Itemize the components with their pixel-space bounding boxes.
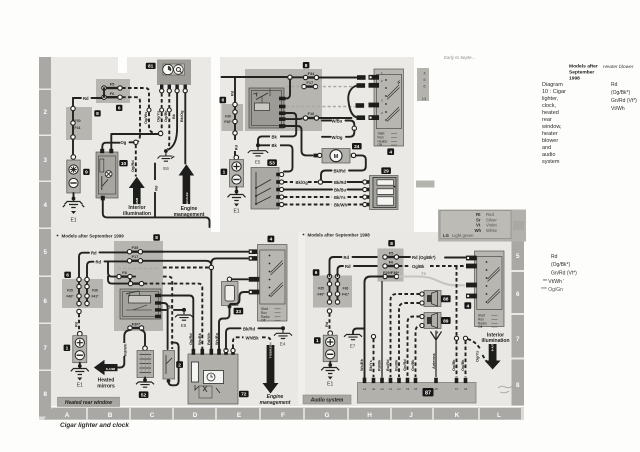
connector pin: [335, 300, 339, 304]
speaker unit 89: [420, 313, 441, 329]
svg-text:a2: a2: [372, 387, 376, 391]
wire fusebox right leg: [337, 276, 339, 304]
battery: [323, 331, 337, 362]
svg-text:6: 6: [66, 273, 69, 279]
svg-text:Audio system: Audio system: [310, 398, 344, 404]
connector pin: [77, 277, 81, 281]
svg-text:** Vt/Wh ': ** Vt/Wh ': [543, 279, 564, 285]
wire loop ignition pin2 to pin 4: [348, 86, 357, 118]
wire Rd fusebox to fuse F6: [338, 264, 384, 276]
ground E1: [228, 195, 246, 215]
svg-text:24: 24: [354, 144, 360, 150]
junction dot: [72, 197, 76, 201]
fuse/relay box 8: [245, 69, 322, 131]
svg-text:Og/Bk: Og/Bk: [412, 264, 425, 269]
radio pin b2: [397, 378, 401, 383]
svg-text:9-A/7: 9-A/7: [491, 343, 495, 351]
svg-text:September: September: [569, 70, 594, 76]
plug connector: [249, 256, 258, 261]
svg-text:b1: b1: [389, 387, 393, 391]
svg-text:89: 89: [443, 318, 449, 324]
wire F16 to ignition pin 4: [319, 117, 352, 119]
svg-text:5: 5: [43, 249, 47, 256]
svg-text:E6: E6: [163, 166, 169, 171]
blower resistor pack: [370, 176, 399, 210]
radio pin b7: [455, 378, 459, 383]
wire relay pin 5 down to blower motor: [285, 126, 313, 155]
svg-text:LG: LG: [443, 233, 450, 238]
label 81: [146, 63, 156, 70]
svg-text:Red: Red: [486, 212, 494, 217]
relay pin b: [155, 301, 161, 304]
svg-text:Rd: Rd: [83, 96, 89, 101]
wire Rd main feed: [222, 76, 288, 78]
svg-text:M: M: [334, 154, 339, 160]
svg-text:Og/Bk: Og/Bk: [460, 359, 465, 371]
connector on b7 wire: [454, 336, 458, 340]
svg-text:Og/Rd: Og/Rd: [130, 160, 135, 172]
plug connector: [356, 103, 365, 108]
svg-text:Vt/Wh: Vt/Wh: [611, 106, 625, 112]
label 52: [139, 391, 149, 398]
colour code legend box: [438, 210, 526, 242]
svg-text:Early to Septe...: Early to Septe...: [444, 55, 475, 60]
svg-text:Models after September 1999: Models after September 1999: [62, 234, 125, 239]
svg-text:management: management: [260, 400, 291, 406]
svg-text:4: 4: [43, 202, 47, 209]
svg-text:81: 81: [148, 64, 154, 70]
fusebox F30/F41: [66, 107, 92, 140]
wire Bk/Ys switch pin4 to resistor pin 3: [284, 195, 363, 200]
lamp unit pin 1: [100, 149, 104, 153]
battery: [73, 331, 87, 362]
wire ignition pin 4 to relay 33: [230, 292, 249, 306]
wire fusebox left leg: [329, 276, 331, 304]
connector pin: [71, 135, 75, 139]
svg-text:Rd: Rd: [233, 144, 238, 150]
wire Rd from E6 region to bottom run: [152, 164, 158, 218]
wire Rd fusebox to battery: [73, 314, 79, 332]
svg-text:rear: rear: [542, 117, 552, 123]
svg-text:8: 8: [43, 391, 47, 398]
junction to ground E7: [353, 329, 365, 334]
svg-text:F40*: F40*: [318, 293, 326, 297]
svg-text:Gn/Rd (Vt*): Gn/Rd (Vt*): [551, 271, 577, 277]
wire Bk/Bu switch pin3 to resistor pin 2: [284, 187, 363, 193]
ignition pin 2: [249, 257, 252, 260]
wire W/Og from connector: [332, 131, 355, 140]
fusebox 6: [313, 276, 352, 308]
connector on a2 wire: [371, 334, 375, 338]
junction dot E5: [256, 143, 260, 147]
fuse F9: [128, 281, 143, 285]
label 87: [423, 388, 434, 396]
relay pin 2: [279, 105, 286, 109]
heater blower switch: [251, 168, 279, 210]
junction dot E8: [182, 308, 186, 312]
svg-text:J: J: [409, 412, 413, 419]
svg-text:White: White: [486, 228, 498, 233]
connector pin: [77, 284, 81, 288]
svg-text:Ws/Bk: Ws/Bk: [197, 332, 202, 345]
svg-text:clock,: clock,: [542, 103, 557, 109]
svg-text:Ws/Bk: Ws/Bk: [359, 358, 364, 371]
svg-text:Bk/Og: Bk/Og: [296, 180, 309, 185]
svg-text:4: 4: [466, 303, 469, 309]
svg-text:Off: Off: [378, 143, 382, 147]
label 4: [387, 148, 394, 155]
svg-text:illumination: illumination: [123, 211, 151, 217]
blower motor: [314, 149, 356, 164]
bottom border letter cells: [44, 408, 521, 420]
svg-text:E5: E5: [255, 160, 261, 165]
connector pin: [335, 274, 339, 278]
ignition pin 4: [369, 115, 380, 120]
junction dot: [328, 363, 332, 367]
fuse F6: [383, 259, 399, 268]
svg-text:management: management: [174, 212, 205, 218]
svg-text:Gn/Bk: Gn/Bk: [410, 359, 415, 371]
inline connector: [352, 126, 356, 130]
svg-text:E7: E7: [350, 344, 356, 349]
faint alternative row in box: [118, 268, 160, 270]
svg-text:Og: Og: [121, 140, 127, 145]
label 6: [220, 97, 227, 104]
svg-text:W/Bu: W/Bu: [332, 118, 343, 123]
svg-text:10: 10: [121, 161, 127, 167]
wire battery to ground: [79, 363, 81, 368]
svg-text:33: 33: [236, 309, 242, 315]
ground E5: [248, 147, 268, 165]
svg-text:Bu/Bk: Bu/Bk: [394, 359, 399, 371]
ground E1: [63, 202, 84, 224]
top-right page edge connector strip: [417, 68, 429, 101]
node C junction: [318, 180, 322, 184]
svg-text:heated: heated: [542, 110, 559, 116]
ignition switch: [258, 245, 288, 323]
wire Rd fusebox drop: [234, 77, 236, 104]
wire Bk/Rd node C to resistor pin 1: [323, 180, 363, 185]
timer pin 6: [231, 348, 235, 354]
wire Og/Bk fuse F6 to ignition pin 2: [399, 264, 466, 269]
plug connector: [249, 249, 258, 254]
svg-text:a5: a5: [435, 387, 439, 391]
svg-text:illumination: illumination: [481, 338, 509, 344]
svg-text:8-A/98: 8-A/98: [106, 367, 116, 371]
connector pin: [77, 294, 81, 298]
panel header note: [303, 233, 371, 238]
svg-text:Og/Bk: Og/Bk: [451, 359, 456, 371]
wire Rd fusebox6 to F17 and fuses F8/F9: [87, 260, 127, 280]
svg-text:F41*: F41*: [342, 293, 350, 297]
svg-text:1998: 1998: [569, 76, 580, 82]
switch pin 4: [276, 195, 284, 199]
wire dashed box8 to component 2 second leg: [132, 277, 172, 349]
ground E6: [158, 149, 175, 171]
svg-text:F36: F36: [343, 287, 349, 291]
svg-text:G: G: [325, 412, 330, 419]
label 88: [441, 295, 451, 302]
label 8: [303, 62, 310, 69]
wire Og/Bk clock pin2 down: [167, 93, 171, 149]
plug connector: [357, 115, 366, 120]
svg-text:8: 8: [155, 235, 158, 241]
wire Rd fusebox to battery: [324, 313, 330, 331]
wire Bk/Ys radio a2: [373, 339, 375, 377]
svg-text:Bk: Bk: [171, 113, 176, 119]
svg-text:Wh: Wh: [475, 228, 482, 233]
svg-text:F35: F35: [318, 287, 324, 291]
svg-text:Bk/Ys: Bk/Ys: [334, 195, 346, 200]
svg-text:Og/Ws: Og/Ws: [143, 112, 148, 124]
ignition pin 4: [466, 294, 477, 299]
svg-text:E: E: [237, 412, 242, 419]
wire speaker to radio b2: [399, 303, 420, 377]
wire Bk clock pin3 to ground E6: [169, 93, 178, 150]
svg-text:53: 53: [269, 160, 275, 166]
wire Rd/Bk radio a4 from fusebox 8: [381, 282, 383, 378]
svg-text:8: 8: [390, 241, 393, 247]
label 6: [64, 272, 71, 279]
svg-text:audio: audio: [542, 152, 555, 158]
wire cigar lighter to ground: [73, 193, 75, 200]
wire Bk ground to blower switch: [260, 143, 292, 172]
radio pin b5: [414, 378, 418, 383]
speaker unit 88: [420, 291, 441, 307]
svg-text:C: C: [150, 412, 155, 419]
svg-text:Violet: Violet: [486, 223, 497, 228]
svg-text:Og/Ys: Og/Ys: [475, 351, 480, 362]
ignition pin 1: [466, 256, 477, 261]
svg-text:Off: Off: [261, 319, 265, 323]
svg-text:b5: b5: [414, 387, 418, 391]
svg-text:Og/Rd: Og/Rd: [188, 333, 193, 345]
label 8: [388, 240, 395, 247]
svg-text:b7: b7: [455, 387, 459, 391]
connector pin: [85, 301, 89, 305]
label 1: [221, 169, 228, 176]
svg-text:Bk/Rd: Bk/Rd: [334, 180, 347, 185]
resistor pack pin 2: [363, 187, 374, 191]
svg-text:Rd: Rd: [91, 250, 97, 255]
wire through fusebox: [234, 104, 236, 156]
svg-text:F41*: F41*: [92, 295, 100, 299]
svg-text:Rd: Rd: [153, 185, 158, 191]
svg-text:13: 13: [422, 96, 427, 101]
fuse F29/F39: [383, 270, 400, 279]
ignition switch: [374, 69, 404, 147]
junction dot: [235, 190, 239, 194]
wire stub W/Bu into box: [322, 120, 331, 122]
junction dot E4: [281, 326, 285, 330]
svg-text:B: B: [108, 412, 113, 419]
svg-text:3: 3: [43, 157, 47, 164]
wire Bk/Og clock pin4 to engine arrow: [184, 93, 186, 164]
svg-text:F3F*: F3F*: [132, 321, 141, 326]
connector pin: [85, 294, 89, 298]
ignition pin 2: [369, 83, 380, 88]
scan page background top-left: [39, 57, 211, 232]
switch pin 3: [276, 187, 284, 191]
svg-text:Gn/Rd: Gn/Rd: [402, 359, 407, 371]
svg-text:Bk/Rd: Bk/Rd: [243, 326, 256, 331]
label 2: [176, 361, 183, 368]
clock pin 1: [160, 85, 164, 93]
label 1: [64, 345, 71, 352]
svg-text:F17: F17: [132, 254, 139, 259]
svg-text:Models after September 1998: Models after September 1998: [308, 233, 371, 238]
svg-text:(Og/Bk*): (Og/Bk*): [611, 90, 631, 96]
svg-text:52: 52: [141, 392, 147, 398]
ignition pin 2: [466, 264, 477, 269]
wire F17 row to node D and ignition pin 2: [143, 258, 248, 265]
junction dot: [78, 364, 82, 368]
ground E1: [321, 368, 339, 388]
svg-text:2: 2: [43, 109, 47, 116]
relay 33: [222, 277, 239, 309]
label 6: [116, 105, 122, 112]
label 72: [239, 391, 249, 398]
relay pin d: [155, 315, 161, 318]
lamp unit pin 2: [109, 149, 113, 153]
svg-text:29: 29: [383, 168, 389, 174]
node A junction: [288, 75, 292, 79]
svg-text:1: 1: [316, 338, 319, 344]
svg-text:a4: a4: [381, 387, 385, 391]
fuse F6: [102, 91, 122, 100]
svg-text:Wh/Bk: Wh/Bk: [246, 335, 260, 340]
wire stub W/Og into box: [322, 136, 331, 138]
relay K2 in box 8: [120, 289, 161, 319]
ground E1: [71, 369, 89, 389]
wire Rd fusebox6 to F35: [79, 250, 163, 279]
ignition pin 3: [249, 277, 260, 282]
wire Ys faded: [399, 271, 465, 286]
wire relay pin 4 to fuse F16: [285, 117, 302, 120]
svg-text:H: H: [367, 412, 372, 419]
fusebox F5/F6: [96, 79, 130, 103]
svg-text:Bk/Rd: Bk/Rd: [334, 168, 347, 173]
svg-text:F: F: [281, 412, 285, 419]
radio pin b8: [464, 378, 468, 383]
heated rear window timer unit: [188, 354, 238, 404]
node A junction: [158, 131, 162, 135]
svg-text:mirrors: mirrors: [97, 383, 115, 389]
label 24: [352, 143, 362, 150]
svg-text:E8: E8: [181, 323, 187, 328]
fusebox 6: [62, 279, 103, 308]
svg-text:heater: heater: [542, 131, 558, 137]
heated mirrors arrow (left): [94, 360, 118, 375]
white notch in scan top edge: [118, 57, 127, 73]
relay pin 1: [279, 97, 286, 101]
antenna: [431, 331, 442, 378]
svg-text:Rd: Rd: [551, 254, 558, 260]
wire F9 feed: [108, 277, 128, 284]
wire relay 33 to ignition pin 3: [232, 278, 248, 280]
signature mark: [498, 386, 513, 393]
svg-text:system: system: [542, 159, 560, 165]
svg-text:L: L: [497, 412, 501, 419]
relay pin 4: [279, 117, 286, 121]
svg-text:F16: F16: [308, 111, 316, 116]
radio pin a1: [363, 378, 367, 383]
wire component 2 loop: [169, 343, 179, 386]
small gray mark right of resistor pack: [416, 181, 435, 188]
relay pin 3: [279, 111, 286, 115]
ignition pin 3: [369, 103, 380, 108]
svg-text:D: D: [193, 412, 198, 419]
svg-text:Cigar lighter and clock: Cigar lighter and clock: [60, 422, 129, 429]
wire battery to ground: [329, 362, 331, 367]
wire feed fuse F29 down to radio: [365, 277, 384, 378]
faint alternative wire relay pin 2 row: [286, 106, 355, 108]
svg-text:Bk: Bk: [272, 134, 278, 139]
svg-text:Rt: Rt: [476, 212, 481, 217]
wire F36 to window element: [142, 330, 146, 346]
svg-text:Light green: Light green: [452, 233, 474, 238]
relay pin a: [155, 294, 161, 297]
wire Rd (Og/Bk*) fuse F5 to ignition pin 1: [399, 255, 466, 260]
wire Og/Bk radio b7 from ignition row: [456, 266, 458, 377]
timer pin 5: [224, 348, 228, 354]
radio/cassette unit: [358, 383, 477, 404]
engine management arrow: [179, 164, 195, 208]
svg-text:(Og/Bk*): (Og/Bk*): [551, 262, 571, 268]
fuse F5: [102, 82, 122, 91]
label 1: [314, 337, 321, 344]
wire Rd through fusebox F30/F41: [72, 98, 74, 155]
radio pin b3: [406, 378, 410, 383]
fuse F16: [303, 111, 318, 120]
caption bar heated rear window: [58, 397, 120, 406]
svg-text:Vt: Vt: [476, 223, 481, 228]
diagram title: [541, 82, 566, 165]
wire Bk/Wh switch pin5 to resistor pin 4: [284, 203, 363, 208]
junction dot: [143, 378, 147, 382]
scan page background bottom: [39, 232, 524, 406]
svg-text:Ys: Ys: [421, 271, 427, 276]
wire speaker to radio b3: [408, 317, 421, 378]
svg-text:4: 4: [270, 237, 273, 243]
battery: [230, 155, 244, 187]
svg-text:F17: F17: [306, 80, 313, 85]
wire relay 33 down to timer pin 4: [219, 307, 230, 349]
wire F34 to ignition pin 1: [319, 77, 357, 79]
svg-text:Bk: Bk: [272, 143, 278, 148]
svg-text:8: 8: [96, 111, 99, 117]
svg-text:F40*: F40*: [224, 120, 232, 124]
wire Og node B to lamp pin 1: [102, 140, 133, 149]
timer pin 4: [217, 349, 221, 355]
svg-text:6: 6: [315, 270, 318, 276]
label 89: [441, 317, 451, 324]
fuse F5: [383, 250, 399, 259]
svg-text:Models after: Models after: [569, 64, 598, 70]
wire Rd fusebox to fuse F5: [330, 255, 384, 276]
gutter between bottom panels: [298, 232, 305, 405]
fuse F17: [302, 80, 318, 89]
ignition pin 3: [466, 283, 477, 288]
svg-text:Heated rear window: Heated rear window: [65, 400, 113, 406]
svg-text:*** Og/Gn: *** Og/Gn: [541, 287, 563, 293]
connector on F5 wire: [147, 108, 151, 112]
connector pin: [233, 131, 237, 135]
ground E7: [344, 335, 362, 349]
connector pin: [327, 292, 331, 296]
wire battery to ground: [236, 187, 238, 194]
wire speaker to radio b1: [391, 294, 421, 377]
